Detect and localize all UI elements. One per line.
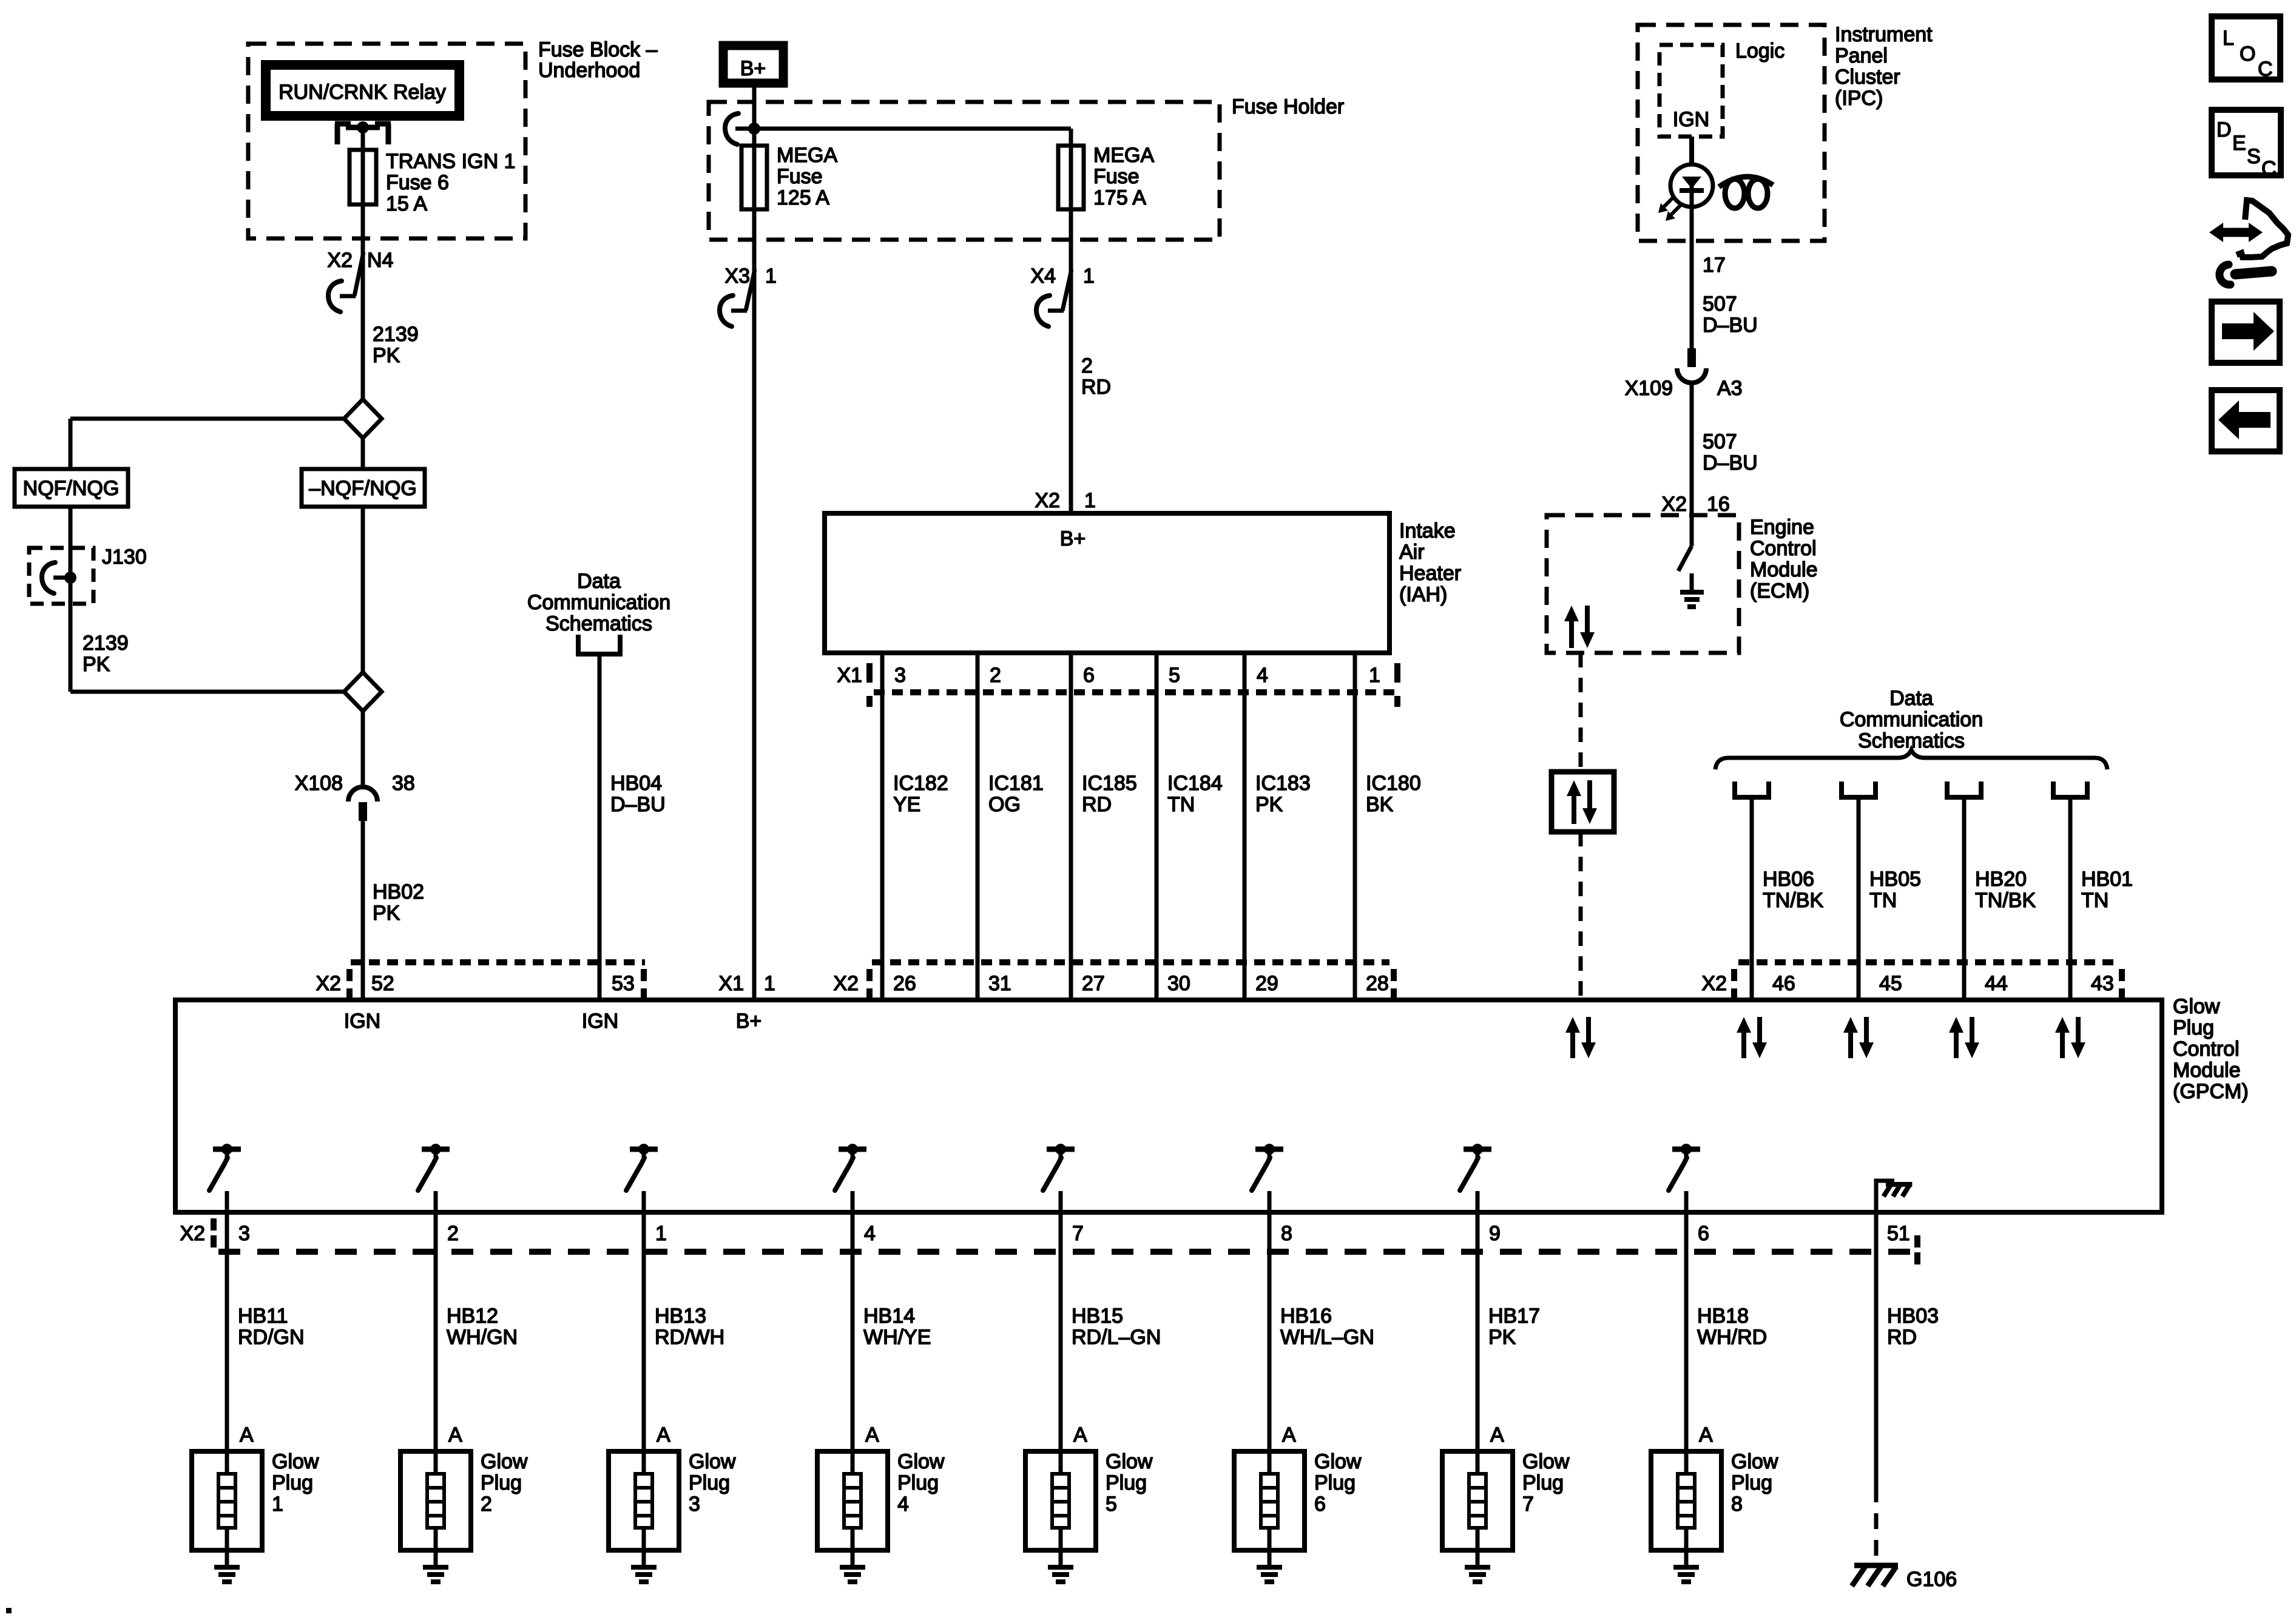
- svg-text:D–BU: D–BU: [610, 793, 666, 816]
- in-line connector X108 pin 38: [348, 787, 377, 821]
- GPCM internal data arrows (pin 45): [1848, 1029, 1853, 1058]
- wire IPC pin 17 down: [1690, 207, 1694, 348]
- relay contact terminal bracket: [335, 121, 391, 144]
- svg-text:51: 51: [1887, 1222, 1910, 1245]
- wire relay to fuse 6: [361, 127, 365, 150]
- glow plug 6 box: [1234, 1451, 1305, 1550]
- svg-text:Glow: Glow: [2173, 995, 2220, 1018]
- svg-text:D–BU: D–BU: [1703, 451, 1758, 474]
- svg-text:Module: Module: [2173, 1059, 2241, 1082]
- svg-text:Glow: Glow: [1106, 1450, 1153, 1473]
- IPC coil symbol: [1719, 177, 1773, 208]
- svg-text:TN/BK: TN/BK: [1763, 889, 1823, 912]
- svg-text:29: 29: [1255, 972, 1278, 995]
- svg-text:X4: X4: [1030, 265, 1056, 288]
- svg-text:Control: Control: [1750, 537, 1817, 560]
- svg-text:(ECM): (ECM): [1750, 579, 1809, 603]
- GPCM low-side switch (glow plug 1): [209, 1144, 241, 1212]
- svg-text:6: 6: [1314, 1493, 1326, 1516]
- svg-text:2: 2: [1081, 354, 1093, 377]
- svg-text:31: 31: [988, 972, 1011, 995]
- option label box NQF/NQG: [15, 469, 128, 507]
- fuse block underhood (dashed box): [248, 44, 525, 238]
- fuse TRANS IGN 1 Fuse 6 15 A: [349, 150, 376, 204]
- glow plug 7 box: [1442, 1451, 1513, 1550]
- wire diamond to -NQF/NQG: [361, 438, 365, 469]
- svg-text:Plug: Plug: [897, 1471, 939, 1494]
- wire HB20 TN/BK to GPCM pin 44: [1962, 797, 1967, 1000]
- svg-text:175 A: 175 A: [1093, 186, 1146, 209]
- svg-text:Panel: Panel: [1835, 44, 1888, 67]
- svg-text:MEGA: MEGA: [1093, 144, 1154, 167]
- svg-text:HB06: HB06: [1763, 868, 1814, 891]
- svg-text:43: 43: [2091, 972, 2114, 995]
- svg-text:PK: PK: [1488, 1326, 1516, 1349]
- svg-text:7: 7: [1522, 1493, 1534, 1516]
- two-way serial data box: [1551, 772, 1614, 832]
- icon box arrow left: [2212, 390, 2280, 451]
- svg-text:Glow: Glow: [1522, 1450, 1570, 1473]
- GPCM internal data arrows (serial data): [1570, 1029, 1575, 1058]
- svg-text:IC180: IC180: [1366, 772, 1421, 795]
- wire 175A fuse to IAH: [1069, 209, 1073, 513]
- glow plug 4 ground: [840, 1550, 865, 1582]
- IAH pin 1 wire to GPCM pin 28: [1353, 653, 1357, 1000]
- IAH pin 5 wire to GPCM pin 30: [1155, 653, 1159, 1000]
- svg-text:Module: Module: [1750, 558, 1818, 581]
- svg-text:IC184: IC184: [1167, 772, 1223, 795]
- GPCM X2 connector row (26-28) dashed: [872, 959, 1389, 965]
- connector X3/1 symbol: [720, 269, 755, 326]
- GPCM low-side switch (glow plug 2): [418, 1144, 450, 1212]
- IAH pin 6 wire to GPCM pin 27: [1069, 653, 1073, 1000]
- wire -NQF/NQG down to lower diamond: [361, 507, 365, 672]
- svg-text:E: E: [2232, 132, 2246, 155]
- GPCM internal data arrows (pin 46): [1741, 1029, 1746, 1058]
- GPCM low-side switch (glow plug 7): [1460, 1144, 1491, 1212]
- svg-text:3: 3: [894, 664, 906, 687]
- IPC logic block (dashed box): [1660, 45, 1723, 137]
- instrument panel cluster IPC (dashed box): [1638, 25, 1825, 241]
- dashed serial data wire ECM to two-way box: [1579, 653, 1583, 772]
- dashed serial data wire to GPCM: [1579, 832, 1583, 1000]
- svg-text:X108: X108: [295, 772, 343, 795]
- svg-text:2139: 2139: [83, 632, 129, 655]
- icon box LOC: [2212, 16, 2280, 79]
- svg-text:6: 6: [1698, 1222, 1709, 1245]
- svg-text:Data: Data: [577, 570, 621, 593]
- svg-text:HB11: HB11: [238, 1305, 288, 1328]
- RUN/CRNK Relay label box: [266, 65, 459, 116]
- svg-text:Glow: Glow: [1314, 1450, 1362, 1473]
- GPCM X2 connector row (52/53) dashed: [351, 959, 645, 965]
- svg-text:X2: X2: [1661, 493, 1687, 516]
- svg-text:2: 2: [447, 1222, 459, 1245]
- svg-text:3: 3: [238, 1222, 250, 1245]
- svg-text:HB20: HB20: [1975, 868, 2027, 891]
- bottom row group ticks: [211, 1218, 217, 1230]
- svg-text:YE: YE: [893, 793, 920, 816]
- wire HB14 WH/YE to glow plug 4: [851, 1212, 855, 1451]
- GPCM internal data arrows (pin 44): [1954, 1029, 1959, 1058]
- wire HB12 WH/GN to glow plug 2: [434, 1212, 438, 1451]
- GPCM low-side switch (glow plug 5): [1043, 1144, 1075, 1212]
- svg-text:S: S: [2247, 145, 2261, 168]
- page terminal for HB06: [1735, 781, 1769, 797]
- svg-text:A: A: [657, 1423, 670, 1447]
- svg-text:52: 52: [371, 972, 394, 995]
- svg-text:Glow: Glow: [689, 1450, 736, 1473]
- IAH pin 4 wire to GPCM pin 29: [1243, 653, 1247, 1000]
- wire HB01 TN to GPCM pin 43: [2068, 797, 2073, 1000]
- svg-text:X2: X2: [180, 1222, 205, 1245]
- svg-text:2139: 2139: [373, 323, 419, 346]
- IAH pin 2 wire to GPCM pin 31: [976, 653, 980, 1000]
- wire NQF/NQG down through J130: [69, 507, 73, 692]
- wire HB15 RD/L–GN to glow plug 5: [1059, 1212, 1063, 1451]
- svg-text:A: A: [240, 1423, 254, 1447]
- fuse holder feed hook connector: [725, 113, 754, 144]
- GPCM X2 connector row (46-43) dashed: [1738, 959, 2118, 965]
- svg-text:Plug: Plug: [1522, 1471, 1564, 1494]
- svg-text:4: 4: [1257, 664, 1268, 687]
- svg-text:38: 38: [392, 772, 415, 795]
- svg-text:2: 2: [990, 664, 1001, 687]
- svg-text:Heater: Heater: [1399, 562, 1461, 585]
- svg-text:WH/RD: WH/RD: [1697, 1326, 1767, 1349]
- svg-text:G106: G106: [1906, 1568, 1957, 1591]
- svg-text:Plug: Plug: [1731, 1471, 1772, 1494]
- svg-text:A: A: [1490, 1423, 1504, 1447]
- GPCM bottom X2 connector row dashed: [218, 1249, 1917, 1255]
- svg-text:507: 507: [1703, 430, 1737, 453]
- svg-text:X2: X2: [833, 972, 859, 995]
- svg-text:Fuse 6: Fuse 6: [386, 171, 449, 194]
- GPCM low-side switch (glow plug 4): [835, 1144, 866, 1212]
- svg-text:4: 4: [897, 1493, 909, 1516]
- svg-text:RD: RD: [1081, 376, 1111, 399]
- svg-text:125 A: 125 A: [777, 186, 829, 209]
- wire B+ to fuse holder junction: [752, 83, 757, 129]
- svg-text:X1: X1: [718, 972, 744, 995]
- svg-text:O: O: [2240, 42, 2255, 66]
- svg-text:HB04: HB04: [610, 772, 662, 795]
- svg-text:Underhood: Underhood: [538, 59, 640, 82]
- wire HB13 RD/WH to glow plug 3: [642, 1212, 646, 1451]
- wire diamond to X108: [361, 711, 365, 787]
- glow plug 5 box: [1025, 1451, 1096, 1550]
- svg-text:1: 1: [272, 1493, 283, 1516]
- svg-text:4: 4: [864, 1222, 876, 1245]
- svg-text:IC185: IC185: [1082, 772, 1137, 795]
- svg-text:X2: X2: [327, 249, 353, 272]
- svg-text:Plug: Plug: [481, 1471, 522, 1494]
- glow plug 6 ground: [1257, 1550, 1282, 1582]
- svg-text:C: C: [2261, 157, 2277, 180]
- svg-text:Fuse: Fuse: [777, 165, 823, 188]
- bus wire to second mega fuse: [754, 127, 1071, 131]
- svg-text:(IPC): (IPC): [1835, 87, 1883, 110]
- svg-text:HB17: HB17: [1488, 1305, 1540, 1328]
- svg-text:Cluster: Cluster: [1835, 66, 1900, 89]
- ECM internal ground: [1680, 573, 1704, 607]
- splice J130 (dashed box): [29, 548, 93, 604]
- intake air heater IAH box: [825, 513, 1389, 653]
- svg-text:Control: Control: [2173, 1038, 2240, 1061]
- svg-text:17: 17: [1703, 254, 1726, 277]
- svg-text:Engine: Engine: [1750, 516, 1814, 539]
- glow plug 3 box: [609, 1451, 679, 1550]
- svg-text:507: 507: [1703, 292, 1737, 316]
- svg-text:HB16: HB16: [1280, 1305, 1332, 1328]
- GPCM internal ground (pin 51): [1876, 1181, 1912, 1212]
- svg-text:HB03: HB03: [1887, 1305, 1939, 1328]
- svg-text:1: 1: [1369, 664, 1380, 687]
- chassis ground G106: [1852, 1565, 1898, 1586]
- svg-text:NQF/NQG: NQF/NQG: [23, 477, 120, 500]
- svg-text:27: 27: [1082, 972, 1105, 995]
- page terminal for HB01: [2053, 781, 2087, 797]
- svg-text:Air: Air: [1399, 541, 1425, 564]
- svg-text:IGN: IGN: [1673, 108, 1709, 131]
- svg-text:1: 1: [655, 1222, 667, 1245]
- svg-text:X3: X3: [724, 265, 750, 288]
- glow plug 5 ground: [1048, 1550, 1073, 1582]
- svg-text:Plug: Plug: [1106, 1471, 1147, 1494]
- right arrow: [2222, 312, 2274, 351]
- wire HB06 TN/BK to GPCM pin 46: [1750, 797, 1754, 1000]
- svg-text:B+: B+: [1060, 527, 1086, 550]
- svg-text:TN: TN: [2081, 889, 2109, 912]
- svg-text:X1: X1: [837, 664, 862, 687]
- svg-text:Schematics: Schematics: [545, 612, 652, 635]
- MEGA fuse 125 A: [741, 129, 767, 209]
- svg-text:45: 45: [1879, 972, 1902, 995]
- glow plug 4 heater element: [844, 1451, 861, 1550]
- svg-text:5: 5: [1169, 664, 1180, 687]
- wire HB04 D-BU to GPCM pin 53: [598, 654, 602, 1000]
- wire HB17 PK to glow plug 7: [1476, 1212, 1480, 1451]
- page terminal for HB05: [1842, 781, 1876, 797]
- svg-text:3: 3: [689, 1493, 700, 1516]
- svg-text:N4: N4: [367, 249, 393, 272]
- svg-text:IGN: IGN: [344, 1010, 380, 1033]
- svg-text:Glow: Glow: [272, 1450, 319, 1473]
- glow plug control module GPCM box: [175, 1000, 2162, 1212]
- connector X4/1 symbol: [1036, 269, 1072, 326]
- glow plug 2 box: [400, 1451, 471, 1550]
- two-way box arrows: [1572, 792, 1576, 824]
- svg-text:1: 1: [1084, 489, 1096, 512]
- svg-text:Glow: Glow: [897, 1450, 945, 1473]
- junction dot at B+ bus: [748, 123, 760, 135]
- MEGA fuse 175 A: [1058, 129, 1084, 209]
- svg-text:HB13: HB13: [655, 1305, 706, 1328]
- page terminal for HB20: [1947, 781, 1981, 797]
- svg-text:A: A: [865, 1423, 879, 1447]
- J130 splice dot and hook: [42, 562, 76, 593]
- glow plug 8 heater element: [1678, 1451, 1695, 1550]
- svg-text:8: 8: [1731, 1493, 1743, 1516]
- GPCM low-side switch (glow plug 6): [1252, 1144, 1283, 1212]
- svg-text:PK: PK: [83, 653, 110, 676]
- wire HB18 WH/RD to glow plug 8: [1684, 1212, 1689, 1451]
- wire 125A fuse to GPCM pin X1-1: [752, 209, 757, 1000]
- svg-text:MEGA: MEGA: [777, 144, 837, 167]
- connector X2/N4 symbol: [328, 252, 363, 312]
- svg-text:5: 5: [1106, 1493, 1117, 1516]
- svg-text:HB01: HB01: [2081, 868, 2133, 891]
- glow plug 6 heater element: [1261, 1451, 1278, 1550]
- option splice diamond (upper): [344, 399, 382, 438]
- svg-text:WH/YE: WH/YE: [863, 1326, 931, 1349]
- icon car with arrow and wrench: [2209, 200, 2288, 285]
- svg-text:1: 1: [1083, 265, 1095, 288]
- ECM internal switch blade: [1678, 546, 1692, 571]
- svg-text:PK: PK: [373, 902, 400, 925]
- indicator LED (wait to start lamp): [1670, 164, 1713, 207]
- svg-text:8: 8: [1281, 1222, 1292, 1245]
- svg-text:Glow: Glow: [481, 1450, 528, 1473]
- svg-text:OG: OG: [988, 793, 1021, 816]
- svg-text:RD/WH: RD/WH: [655, 1326, 724, 1349]
- engine control module ECM (dashed box): [1547, 515, 1739, 653]
- svg-text:Fuse Holder: Fuse Holder: [1232, 95, 1344, 118]
- svg-text:L: L: [2223, 27, 2234, 50]
- brace: [1715, 750, 2107, 769]
- svg-text:Instrument: Instrument: [1835, 23, 1933, 46]
- svg-text:2: 2: [481, 1493, 492, 1516]
- GPCM internal data arrows (pin 43): [2060, 1029, 2065, 1058]
- svg-text:1: 1: [764, 972, 775, 995]
- svg-text:A: A: [1699, 1423, 1713, 1447]
- IAH pin 3 wire to GPCM pin 26: [880, 653, 885, 1000]
- svg-text:RUN/CRNK Relay: RUN/CRNK Relay: [279, 81, 446, 104]
- icon box DESC: [2212, 110, 2281, 175]
- svg-text:Logic: Logic: [1735, 39, 1784, 62]
- svg-text:46: 46: [1772, 972, 1795, 995]
- svg-text:WH/L–GN: WH/L–GN: [1280, 1326, 1374, 1349]
- svg-text:B+: B+: [736, 1010, 762, 1033]
- option splice diamond (lower): [344, 672, 382, 711]
- svg-text:HB02: HB02: [373, 880, 424, 903]
- svg-text:B+: B+: [740, 57, 766, 80]
- wire X108 to GPCM pin 52: [361, 821, 365, 1000]
- svg-text:IGN: IGN: [582, 1010, 618, 1033]
- svg-text:Plug: Plug: [272, 1471, 313, 1494]
- svg-text:TN: TN: [1869, 889, 1897, 912]
- svg-text:A: A: [1073, 1423, 1087, 1447]
- svg-text:9: 9: [1489, 1222, 1501, 1245]
- GPCM low-side switch (glow plug 3): [626, 1144, 658, 1212]
- ECM serial data arrows: [1569, 618, 1574, 648]
- svg-text:(GPCM): (GPCM): [2173, 1080, 2249, 1103]
- svg-text:HB12: HB12: [447, 1305, 498, 1328]
- dashed wire segment to G106: [1874, 1487, 1879, 1564]
- svg-text:TN/BK: TN/BK: [1975, 889, 2036, 912]
- svg-text:RD: RD: [1887, 1326, 1917, 1349]
- svg-text:D: D: [2217, 118, 2232, 141]
- glow plug 8 ground: [1673, 1550, 1699, 1582]
- wire HB05 TN to GPCM pin 45: [1857, 797, 1861, 1000]
- wire HB03 RD from pin 51: [1874, 1212, 1879, 1487]
- page terminal for HB04: [578, 635, 620, 654]
- svg-text:A: A: [1282, 1423, 1296, 1447]
- IAH connector X1 row (dashed): [874, 689, 1399, 695]
- svg-text:–NQF/NQG: –NQF/NQG: [309, 477, 417, 500]
- svg-text:Data: Data: [1889, 687, 1933, 710]
- svg-text:7: 7: [1072, 1222, 1084, 1245]
- svg-text:Communication: Communication: [527, 591, 670, 614]
- svg-text:1: 1: [765, 265, 777, 288]
- glow plug 1 heater element: [218, 1451, 235, 1550]
- fuse holder (dashed box): [709, 102, 1220, 240]
- wire HB11 RD/GN to glow plug 1: [225, 1212, 229, 1451]
- svg-text:HB15: HB15: [1072, 1305, 1123, 1328]
- svg-text:A3: A3: [1717, 377, 1743, 400]
- glow plug 4 box: [817, 1451, 888, 1550]
- svg-text:(IAH): (IAH): [1399, 583, 1447, 606]
- glow plug 2 heater element: [427, 1451, 444, 1550]
- svg-text:30: 30: [1167, 972, 1190, 995]
- wire HB16 WH/L–GN to glow plug 6: [1268, 1212, 1272, 1451]
- svg-text:Plug: Plug: [2173, 1016, 2214, 1039]
- svg-text:A: A: [448, 1423, 462, 1447]
- glow plug 3 heater element: [635, 1451, 652, 1550]
- option label box -NQF/NQG: [302, 469, 425, 507]
- wire diamond to NQF branch: [70, 417, 344, 421]
- glow plug 7 ground: [1465, 1550, 1490, 1582]
- svg-text:Plug: Plug: [689, 1471, 730, 1494]
- LED emission arrows: [1658, 197, 1681, 221]
- svg-text:IC183: IC183: [1255, 772, 1311, 795]
- svg-text:Fuse: Fuse: [1093, 165, 1140, 188]
- svg-text:26: 26: [893, 972, 916, 995]
- svg-text:Intake: Intake: [1399, 519, 1456, 542]
- wire fuse 6 down to X2/N4: [361, 204, 365, 399]
- svg-text:HB18: HB18: [1697, 1305, 1749, 1328]
- svg-text:6: 6: [1083, 664, 1095, 687]
- svg-text:15 A: 15 A: [386, 192, 427, 215]
- svg-text:TRANS IGN 1: TRANS IGN 1: [386, 150, 515, 173]
- svg-text:28: 28: [1366, 972, 1389, 995]
- page dot: [6, 1608, 12, 1613]
- svg-text:IC181: IC181: [988, 772, 1044, 795]
- svg-text:Glow: Glow: [1731, 1450, 1778, 1473]
- svg-text:PK: PK: [1255, 793, 1283, 816]
- svg-text:J130: J130: [102, 545, 147, 569]
- svg-text:WH/GN: WH/GN: [447, 1326, 518, 1349]
- glow plug 1 box: [192, 1451, 262, 1550]
- wire logic to indicator: [1689, 137, 1694, 165]
- svg-text:D–BU: D–BU: [1703, 314, 1758, 337]
- glow plug 3 ground: [631, 1550, 657, 1582]
- svg-text:X2: X2: [1035, 489, 1060, 512]
- glow plug 7 heater element: [1469, 1451, 1486, 1550]
- svg-text:HB14: HB14: [863, 1305, 915, 1328]
- svg-text:16: 16: [1707, 493, 1730, 516]
- svg-text:C: C: [2258, 58, 2273, 81]
- svg-text:X2: X2: [316, 972, 341, 995]
- icon box arrow right: [2212, 302, 2280, 363]
- svg-text:X2: X2: [1701, 972, 1727, 995]
- wire left branch to lower diamond: [70, 690, 344, 694]
- svg-text:BK: BK: [1366, 793, 1394, 816]
- svg-text:RD/L–GN: RD/L–GN: [1072, 1326, 1161, 1349]
- svg-text:44: 44: [1985, 972, 2008, 995]
- battery feed B+ terminal box: [723, 46, 783, 83]
- glow plug 1 ground: [214, 1550, 240, 1582]
